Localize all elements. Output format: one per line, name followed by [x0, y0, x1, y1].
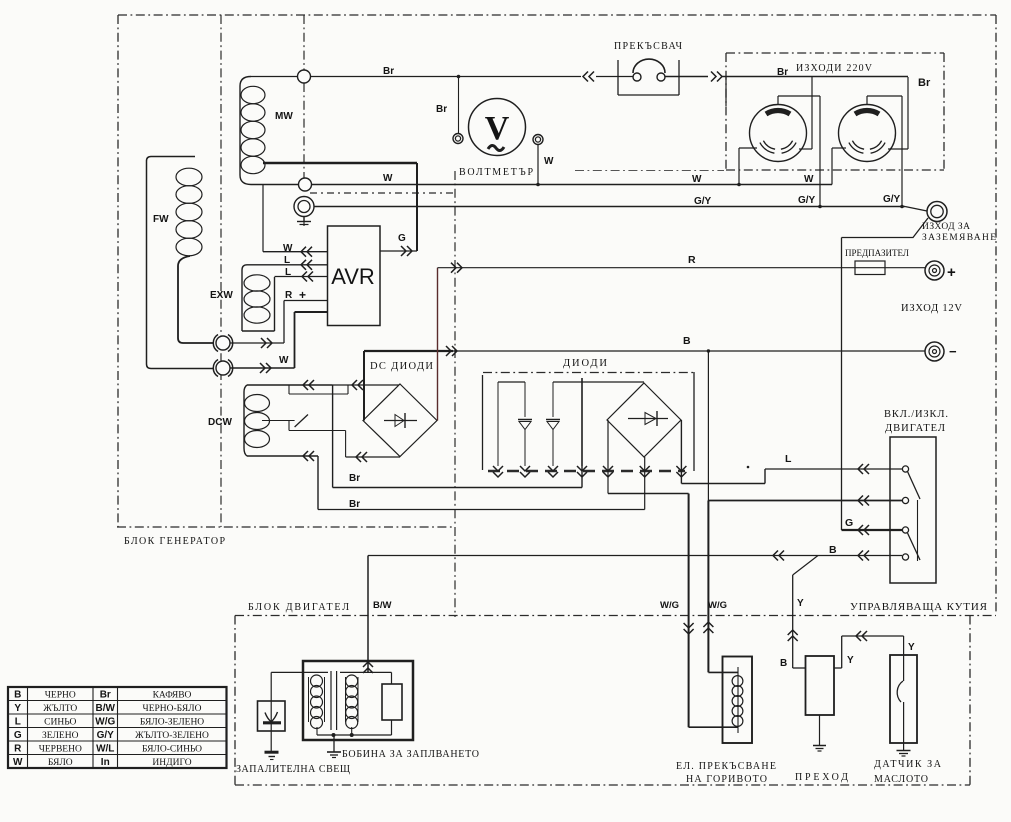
svg-text:ЖЪЛТО: ЖЪЛТО [43, 704, 77, 714]
svg-text:B/W: B/W [373, 600, 392, 611]
svg-text:ЧЕРВЕНО: ЧЕРВЕНО [39, 745, 82, 755]
svg-text:Br: Br [777, 67, 788, 78]
svg-text:FW: FW [153, 214, 169, 225]
svg-text:Br: Br [349, 473, 360, 484]
svg-text:ИНДИГО: ИНДИГО [152, 758, 191, 768]
svg-text:ПРЕКЪСВАЧ: ПРЕКЪСВАЧ [614, 41, 683, 52]
svg-text:Br: Br [383, 66, 394, 77]
svg-text:СИНЬО: СИНЬО [44, 718, 76, 728]
svg-text:Y: Y [797, 598, 804, 609]
svg-text:W: W [279, 355, 289, 366]
svg-text:W/G: W/G [660, 600, 679, 611]
svg-text:W: W [13, 757, 23, 768]
svg-text:V: V [485, 110, 510, 147]
svg-text:G/Y: G/Y [883, 194, 901, 205]
svg-text:ДВИГАТЕЛ: ДВИГАТЕЛ [885, 423, 945, 434]
svg-text:БЯЛО: БЯЛО [48, 758, 73, 768]
svg-text:G/Y: G/Y [97, 730, 115, 741]
svg-text:G: G [398, 233, 406, 244]
svg-text:Br: Br [436, 104, 447, 115]
svg-text:ЧЕРНО: ЧЕРНО [45, 691, 76, 701]
svg-text:−: − [949, 344, 957, 359]
svg-text:G: G [845, 517, 853, 529]
svg-text:W/G: W/G [708, 600, 727, 611]
svg-text:L: L [284, 255, 290, 266]
svg-text:DCW: DCW [208, 417, 232, 428]
svg-text:B: B [683, 335, 691, 347]
svg-text:Y: Y [908, 642, 915, 653]
svg-text:G/Y: G/Y [694, 196, 712, 207]
svg-text:W: W [544, 156, 554, 167]
svg-text:УПРАВЛЯВАЩА КУТИЯ: УПРАВЛЯВАЩА КУТИЯ [850, 601, 988, 613]
svg-text:DC ДИОДИ: DC ДИОДИ [370, 361, 433, 372]
svg-text:W: W [383, 173, 393, 184]
svg-text:MW: MW [275, 111, 293, 122]
svg-text:БЯЛО-ЗЕЛЕНО: БЯЛО-ЗЕЛЕНО [140, 718, 204, 728]
svg-text:ИЗХОДИ 220V: ИЗХОДИ 220V [796, 63, 873, 74]
svg-text:R: R [285, 290, 293, 301]
svg-text:ВКЛ./ИЗКЛ.: ВКЛ./ИЗКЛ. [884, 409, 948, 420]
svg-text:КАФЯВО: КАФЯВО [153, 691, 192, 701]
svg-text:НА ГОРИВОТО: НА ГОРИВОТО [686, 774, 767, 785]
svg-text:+: + [299, 288, 306, 302]
svg-text:In: In [101, 757, 110, 768]
svg-text:ДИОДИ: ДИОДИ [563, 358, 607, 369]
svg-text:B: B [780, 658, 787, 669]
svg-text:БЛОК ДВИГАТЕЛ: БЛОК ДВИГАТЕЛ [248, 602, 349, 613]
svg-text:Br: Br [349, 499, 360, 510]
svg-text:W: W [692, 174, 702, 185]
svg-text:ЕЛ. ПРЕКЪСВАНЕ: ЕЛ. ПРЕКЪСВАНЕ [676, 761, 776, 772]
svg-text:L: L [785, 453, 792, 465]
svg-text:+: + [947, 264, 956, 281]
svg-text:БОБИНА ЗА ЗАПЛВАНЕТО: БОБИНА ЗА ЗАПЛВАНЕТО [342, 749, 479, 760]
svg-text:ПРЕДПАЗИТЕЛ: ПРЕДПАЗИТЕЛ [845, 248, 909, 258]
svg-text:W/G: W/G [95, 717, 115, 728]
svg-text:ЗАЗЕМЯВАНЕ: ЗАЗЕМЯВАНЕ [922, 233, 996, 243]
svg-text:R: R [688, 254, 696, 266]
svg-text:W: W [283, 243, 293, 254]
svg-text:ИЗХОД ЗА: ИЗХОД ЗА [922, 222, 970, 232]
svg-text:B: B [14, 690, 21, 701]
svg-text:G: G [14, 730, 22, 741]
svg-text:ЖЪЛТО-ЗЕЛЕНО: ЖЪЛТО-ЗЕЛЕНО [135, 731, 209, 741]
svg-text:ЧЕРНО-БЯЛО: ЧЕРНО-БЯЛО [143, 704, 202, 714]
svg-text:Br: Br [918, 77, 931, 89]
svg-text:W/L: W/L [96, 744, 114, 755]
svg-text:Br: Br [100, 690, 111, 701]
svg-text:ДАТЧИК ЗА: ДАТЧИК ЗА [874, 759, 942, 770]
svg-text:БЛОК ГЕНЕРАТОР: БЛОК ГЕНЕРАТОР [124, 536, 225, 547]
svg-text:ЗЕЛЕНО: ЗЕЛЕНО [42, 731, 79, 741]
svg-text:EXW: EXW [210, 290, 233, 301]
svg-text:ИЗХОД 12V: ИЗХОД 12V [901, 303, 962, 314]
svg-text:W: W [804, 174, 814, 185]
svg-text:L: L [15, 717, 21, 728]
svg-text:ВОЛТМЕТЪР: ВОЛТМЕТЪР [459, 167, 533, 178]
svg-text:B/W: B/W [96, 703, 116, 714]
svg-text:B: B [829, 544, 837, 556]
svg-text:G/Y: G/Y [798, 195, 816, 206]
svg-text:Y: Y [14, 703, 21, 714]
svg-text:БЯЛО-СИНЬО: БЯЛО-СИНЬО [142, 745, 202, 755]
svg-text:L: L [285, 267, 291, 278]
svg-text:Y: Y [847, 655, 854, 666]
svg-text:R: R [14, 744, 22, 755]
svg-text:AVR: AVR [331, 264, 375, 289]
svg-text:ЗАПАЛИТЕЛНА СВЕЩ: ЗАПАЛИТЕЛНА СВЕЩ [236, 764, 350, 775]
svg-text:МАСЛОТО: МАСЛОТО [874, 774, 928, 785]
